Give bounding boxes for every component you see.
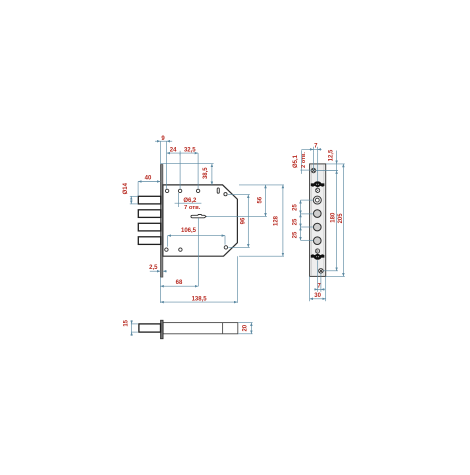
keyhole (lever key slot): [191, 215, 206, 218]
ext hole3: [197, 153, 199, 189]
svg-text:30: 30: [314, 293, 321, 299]
dim 56: [265, 185, 267, 217]
svg-text:Ø14: Ø14: [123, 182, 129, 194]
dim 20: [250, 323, 252, 334]
body bottom ext right: [239, 255, 284, 257]
label divider line: [300, 150, 302, 174]
faceplate front view plate: [310, 164, 326, 277]
ext hole1: [166, 141, 168, 189]
svg-text:15: 15: [123, 319, 129, 326]
svg-text:25: 25: [292, 231, 298, 238]
svg-text:40: 40: [145, 176, 152, 182]
bolt hole circle 3: [314, 237, 322, 245]
dim 96: [247, 195, 249, 248]
ext 106,5 left down: [167, 236, 169, 247]
ext bolt top: [130, 195, 138, 197]
ext bolt bottom: [130, 203, 138, 205]
leader Ø6,2 underline: [175, 202, 202, 204]
body top ext right: [239, 184, 284, 186]
svg-text:25: 25: [292, 204, 298, 211]
svg-text:138,5: 138,5: [192, 296, 208, 302]
top checkered circle: [315, 188, 319, 193]
bottom screw hole: [319, 269, 324, 274]
dim 38,5: [211, 164, 213, 185]
faceplate bar (profile): [161, 320, 164, 339]
ext screw right for 12,5/180: [316, 170, 338, 172]
ext strip top for 38,5: [161, 163, 214, 165]
hole near top bevel: [224, 193, 227, 196]
dim 7 top line: [301, 148, 320, 150]
keyhole leader to right: [206, 215, 267, 217]
bolt 3: [138, 223, 160, 231]
svg-text:38,5: 38,5: [203, 167, 209, 179]
bolt 2: [138, 210, 160, 218]
keyhole center down: [197, 218, 199, 286]
leader Ø6,2 vertical: [178, 193, 180, 207]
dim 12,5 + 180 shared line: [336, 151, 338, 164]
dims 25 ladder: [300, 200, 302, 214]
svg-text:96: 96: [241, 217, 247, 224]
svg-text:24: 24: [170, 148, 177, 154]
svg-text:68: 68: [176, 280, 183, 286]
dim 24 / 32,5 line: [167, 152, 199, 154]
svg-text:205: 205: [338, 213, 344, 224]
dim 205: [342, 164, 344, 277]
dim 9 line: [155, 140, 160, 142]
svg-text:2 отв.: 2 отв.: [301, 152, 307, 168]
dim 106,5: [168, 235, 225, 237]
ext plate top right for 205: [326, 163, 345, 165]
body profile: [163, 323, 238, 334]
svg-text:56: 56: [258, 196, 264, 203]
center ext top: [317, 153, 319, 182]
ext bottom screw right: [323, 270, 338, 272]
ext bolt top/bottom left: [131, 323, 138, 325]
svg-text:180: 180: [331, 212, 337, 223]
svg-text:106,5: 106,5: [181, 228, 197, 234]
dim 138,5: [160, 301, 237, 303]
bottom winged escutcheon (mirrored): [311, 254, 325, 260]
top winged escutcheon: [311, 181, 325, 187]
ext hole4 row: [228, 194, 250, 196]
bottom checkered circle: [315, 249, 319, 254]
bolt hole circle 1: [314, 210, 322, 218]
bottom 7 ext center: [317, 260, 319, 292]
top screw hole: [311, 168, 316, 173]
ext hole2: [179, 153, 181, 189]
dim 15: [131, 320, 133, 324]
faceplate strip (side view): [160, 165, 163, 278]
svg-text:25: 25: [292, 218, 298, 225]
bolt 1: [138, 196, 160, 204]
ext 40 left to bolt: [137, 182, 139, 196]
dim 30: [310, 298, 326, 300]
lock body outline: [163, 185, 238, 256]
svg-text:12,5: 12,5: [328, 149, 334, 161]
bottom dim 7 line: [314, 288, 317, 290]
svg-text:7 отв.: 7 отв.: [184, 205, 201, 211]
svg-text:32,5: 32,5: [184, 148, 196, 154]
ext plate bottom corners: [309, 276, 311, 301]
bottom hole near bevel: [224, 246, 227, 249]
leader to screw left: [300, 169, 311, 171]
bottom hole 1: [165, 248, 168, 251]
bolt 4: [138, 237, 160, 245]
svg-text:Ø6,2: Ø6,2: [183, 198, 197, 204]
screw hole top row 3: [196, 189, 199, 192]
svg-text:Ø5,1: Ø5,1: [293, 154, 299, 168]
dim 68: [160, 285, 198, 287]
ext 106,5 right down: [224, 236, 226, 245]
ext plate bottom right: [326, 275, 345, 277]
dim Ø14: [130, 196, 132, 204]
svg-text:128: 128: [273, 215, 279, 226]
bolt hole circle 2: [314, 223, 322, 231]
ext strip left bottom: [159, 277, 161, 303]
ext body right down: [236, 256, 238, 303]
screw hole top row 2: [178, 189, 181, 192]
bottom 7 ext screw: [320, 273, 322, 292]
dim 2,5 arrows: [150, 270, 161, 272]
dim 40: [138, 181, 160, 183]
svg-text:2,5: 2,5: [149, 265, 158, 271]
ext 9 left: [159, 141, 161, 164]
dim 128: [282, 185, 284, 256]
screw hole top row 1: [165, 189, 168, 192]
bottom hole 2: [179, 248, 182, 251]
profile divider: [222, 323, 224, 334]
ext to top screw: [312, 153, 314, 171]
ext bottom-right hole row: [228, 246, 250, 248]
svg-text:20: 20: [243, 324, 249, 331]
bolt (profile): [139, 324, 161, 332]
ring (retracted bolt hole): [313, 196, 321, 204]
ext body right top/bottom: [238, 322, 252, 324]
slot near bevel: [217, 188, 219, 193]
